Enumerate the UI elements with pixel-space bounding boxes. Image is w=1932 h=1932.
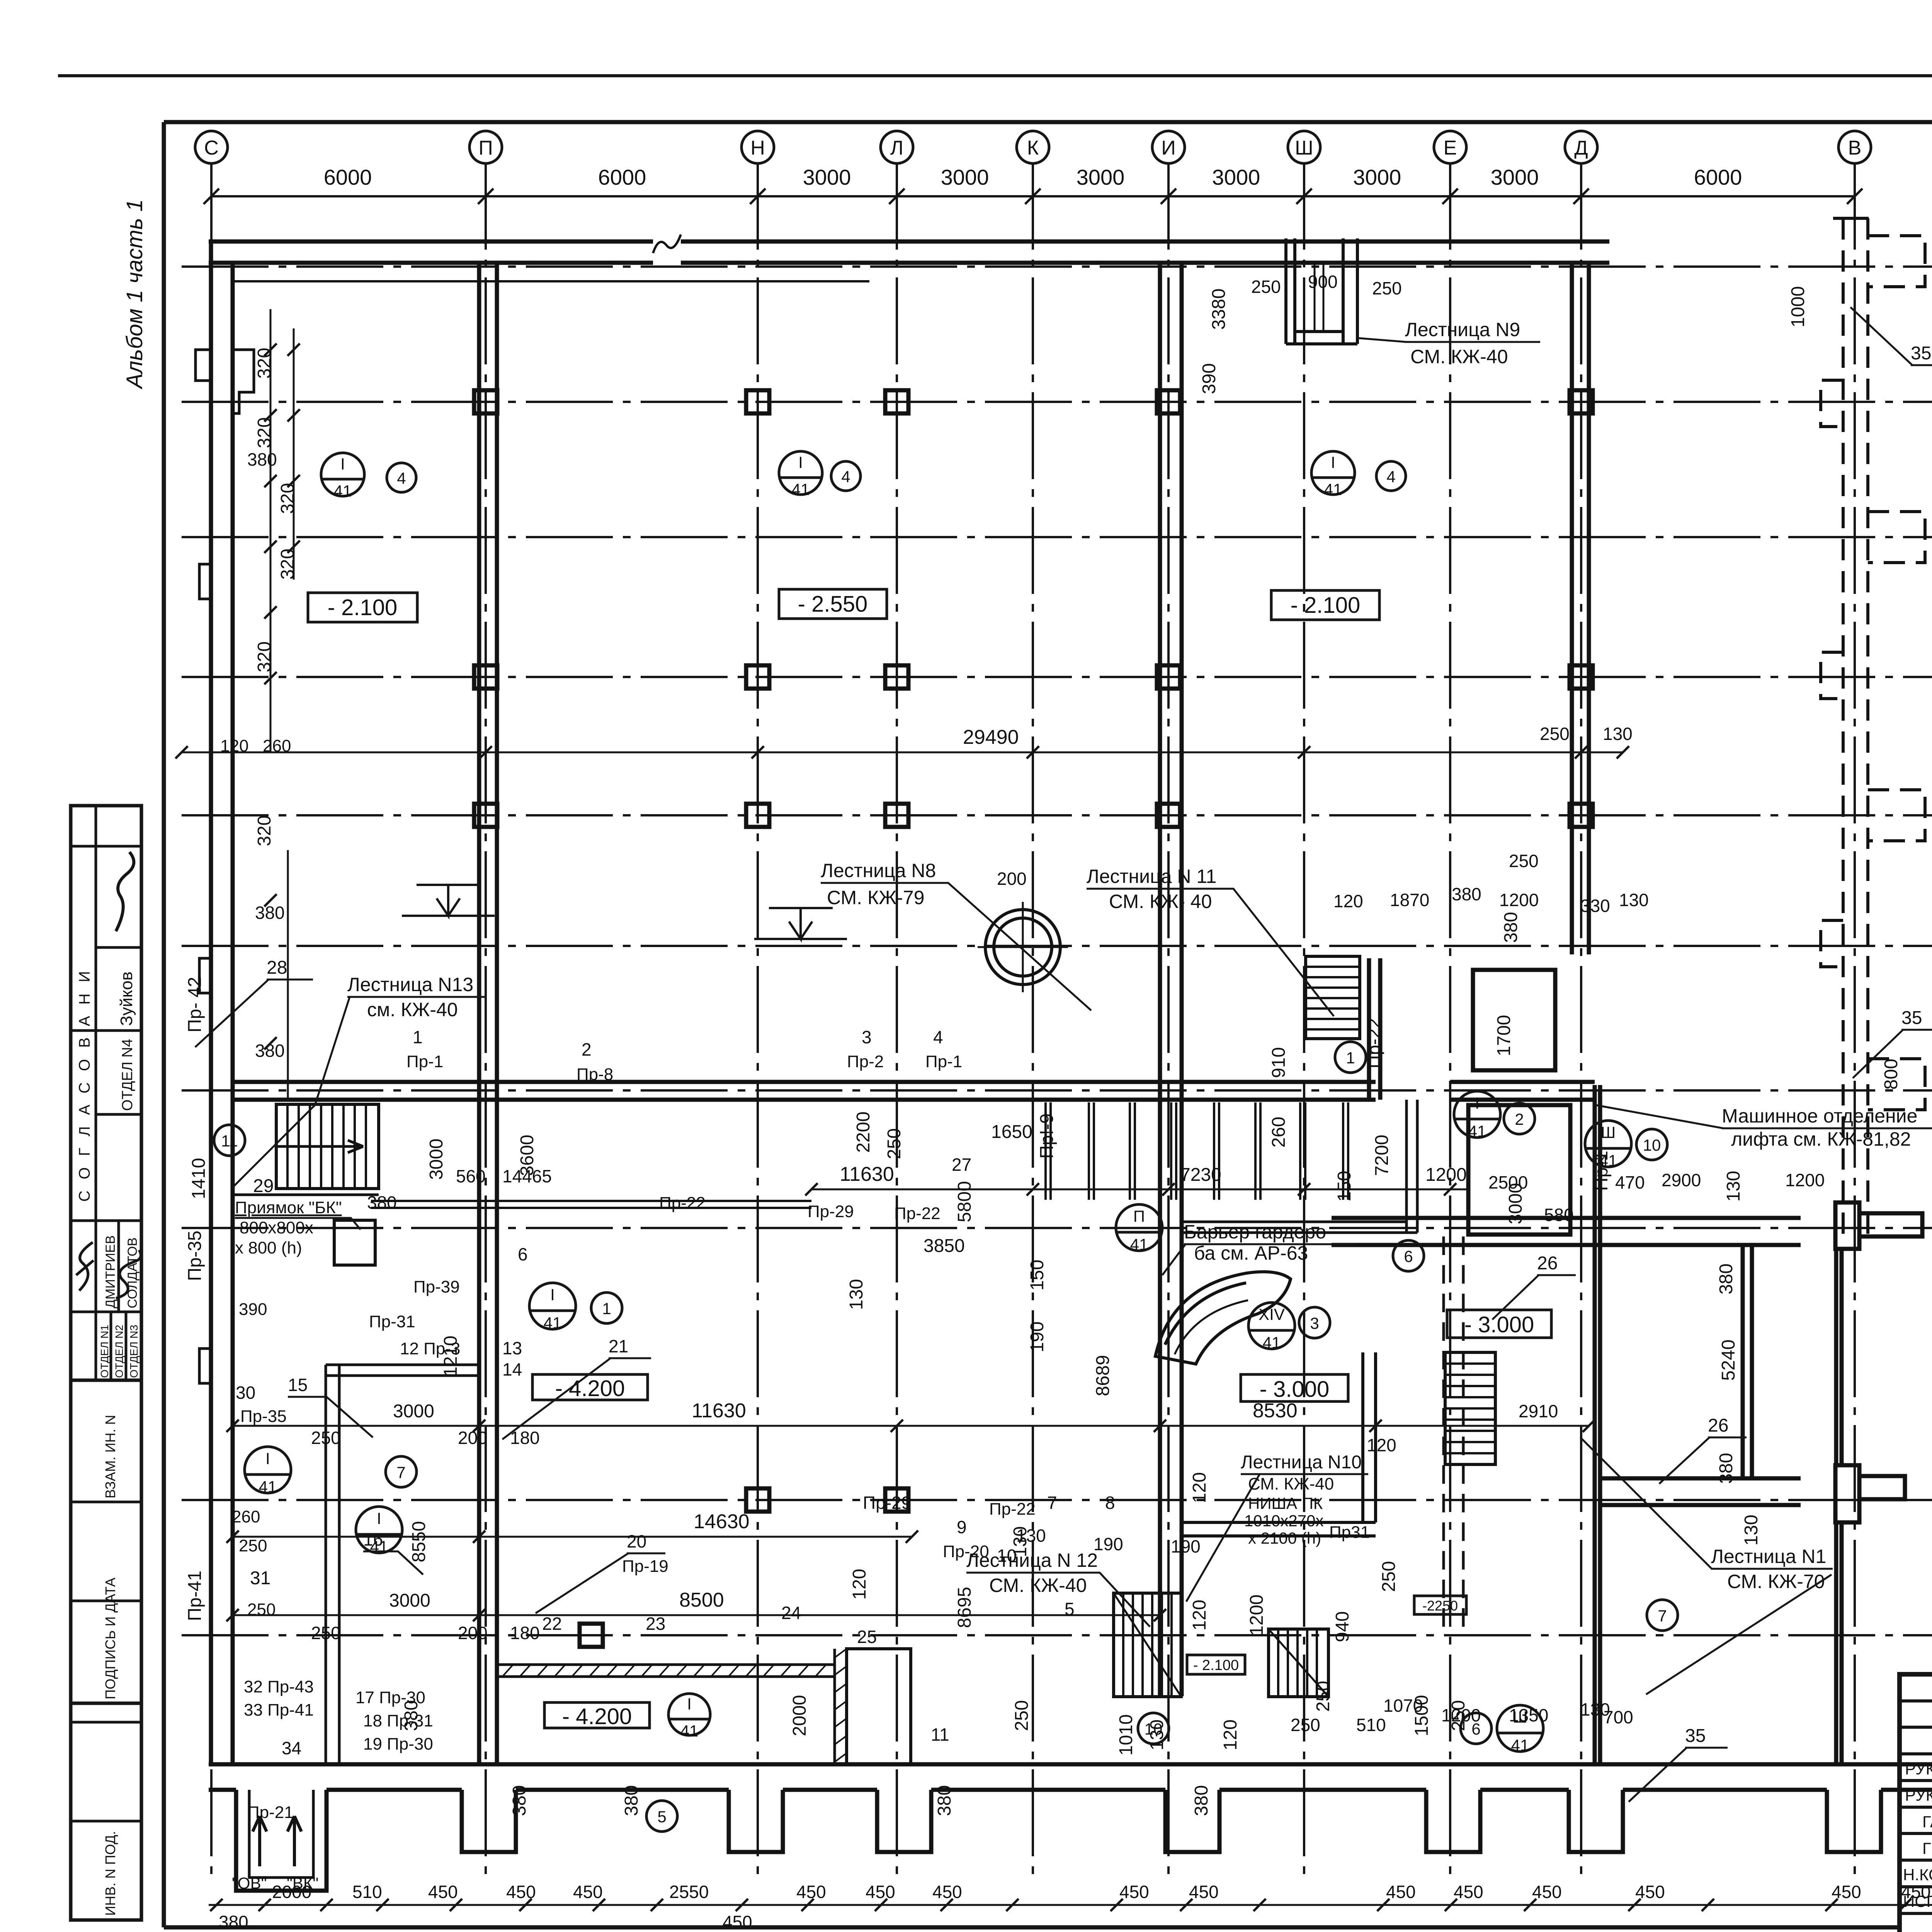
svg-text:ПОДПИСЬ И ДАТА: ПОДПИСЬ И ДАТА bbox=[102, 1578, 118, 1699]
svg-text:- 2.100: - 2.100 bbox=[328, 595, 398, 620]
wall below pier 5 to south wall bbox=[1834, 1522, 1838, 1764]
svg-text:Ш: Ш bbox=[1295, 137, 1313, 159]
svg-text:1000: 1000 bbox=[1788, 286, 1808, 328]
svg-text:3000: 3000 bbox=[1491, 165, 1539, 189]
svg-text:29: 29 bbox=[253, 1176, 274, 1196]
svg-text:450: 450 bbox=[866, 1882, 895, 1902]
svg-text:250: 250 bbox=[1372, 278, 1402, 298]
svg-text:800: 800 bbox=[1881, 1059, 1901, 1090]
svg-text:Лестница N13: Лестница N13 bbox=[347, 974, 473, 995]
svg-text:5: 5 bbox=[657, 1808, 666, 1826]
chamber right wall bbox=[1834, 1248, 1838, 1465]
axis 14 bbox=[182, 265, 1932, 268]
air duct hatched wall horizontal bbox=[497, 1649, 911, 1764]
center room upper partitions near axis 8 south bbox=[1182, 1100, 1417, 1233]
svg-text:Н: Н bbox=[750, 137, 765, 159]
svg-text:ОТДЕЛ N4: ОТДЕЛ N4 bbox=[119, 1039, 136, 1111]
stair 13 bbox=[276, 1104, 379, 1189]
svg-text:3000: 3000 bbox=[1353, 165, 1401, 189]
svg-text:Лестница N8: Лестница N8 bbox=[821, 860, 936, 881]
svg-text:1010х270х: 1010х270х bbox=[1244, 1512, 1324, 1530]
south-west service niche OV VK bbox=[236, 1790, 327, 1891]
svg-text:130: 130 bbox=[846, 1279, 867, 1310]
svg-text:Пр-35: Пр-35 bbox=[240, 1407, 287, 1426]
pier at V x 5 bbox=[1835, 1465, 1859, 1522]
svg-text:6000: 6000 bbox=[598, 165, 646, 189]
svg-text:3000: 3000 bbox=[389, 1590, 430, 1611]
svg-text:- 3.000: - 3.000 bbox=[1260, 1377, 1330, 1402]
svg-text:250: 250 bbox=[1448, 1700, 1469, 1731]
svg-text:330: 330 bbox=[1580, 896, 1610, 916]
svg-text:390: 390 bbox=[239, 1300, 267, 1319]
svg-text:23: 23 bbox=[646, 1614, 665, 1634]
axis I bbox=[1167, 163, 1170, 1882]
svg-text:41: 41 bbox=[1468, 1122, 1486, 1140]
svg-text:ВЗАМ. ИН. N: ВЗАМ. ИН. N bbox=[102, 1415, 118, 1498]
dim line 11630/8530 bbox=[233, 1425, 1589, 1427]
svg-text:Пр-22: Пр-22 bbox=[989, 1500, 1036, 1519]
svg-text:1200: 1200 bbox=[1785, 1170, 1825, 1190]
svg-text:8500: 8500 bbox=[679, 1589, 724, 1611]
svg-text:190: 190 bbox=[1027, 1321, 1048, 1352]
vertical axis lines bbox=[211, 163, 1855, 1882]
svg-text:250: 250 bbox=[247, 1600, 276, 1619]
svg-text:450: 450 bbox=[1832, 1882, 1861, 1902]
east channel wall top cap bbox=[1833, 217, 1869, 220]
svg-text:450: 450 bbox=[1119, 1882, 1149, 1902]
svg-text:1410: 1410 bbox=[189, 1158, 209, 1199]
svg-text:380: 380 bbox=[1452, 884, 1481, 904]
svg-text:320: 320 bbox=[254, 815, 275, 846]
svg-text:Пр31: Пр31 bbox=[1329, 1523, 1370, 1542]
svg-text:22: 22 bbox=[542, 1614, 562, 1634]
svg-text:Лестница N9: Лестница N9 bbox=[1405, 319, 1520, 340]
svg-text:320: 320 bbox=[277, 483, 298, 514]
svg-text:27: 27 bbox=[952, 1155, 971, 1175]
svg-text:560: 560 bbox=[456, 1166, 486, 1186]
svg-text:10: 10 bbox=[1643, 1136, 1661, 1154]
west wall notches bbox=[196, 350, 211, 381]
svg-text:П: П bbox=[478, 137, 493, 159]
axis V bbox=[1854, 163, 1856, 1882]
svg-text:250: 250 bbox=[884, 1128, 905, 1159]
svg-text:х 2100 (h): х 2100 (h) bbox=[1248, 1529, 1321, 1547]
svg-text:380: 380 bbox=[1501, 912, 1521, 943]
svg-text:Пр-8: Пр-8 bbox=[577, 1065, 613, 1084]
east rooms block lower right bbox=[1332, 1085, 1922, 1764]
svg-text:250: 250 bbox=[1379, 1561, 1399, 1592]
sump pit square bbox=[334, 1220, 375, 1265]
svg-text:7: 7 bbox=[1047, 1493, 1057, 1513]
svg-text:380: 380 bbox=[1716, 1453, 1736, 1484]
svg-text:1650: 1650 bbox=[991, 1122, 1032, 1142]
svg-text:41: 41 bbox=[1130, 1235, 1148, 1253]
symbol I/41 circles with room numbers bbox=[214, 451, 1678, 1832]
svg-text:Пр-1: Пр-1 bbox=[1591, 1151, 1612, 1191]
svg-text:35: 35 bbox=[1685, 1726, 1706, 1746]
svg-text:"ВК": "ВК" bbox=[287, 1874, 318, 1892]
svg-text:ОТДЕЛ N2: ОТДЕЛ N2 bbox=[113, 1325, 125, 1378]
svg-text:Ш: Ш bbox=[1601, 1123, 1616, 1141]
axis 8 interior wall bbox=[233, 1080, 1376, 1084]
svg-text:1500: 1500 bbox=[1412, 1695, 1432, 1736]
stair near E bbox=[1445, 1352, 1495, 1464]
svg-text:320: 320 bbox=[277, 549, 298, 580]
top dimension labels bbox=[324, 165, 1742, 189]
svg-text:I: I bbox=[550, 1286, 555, 1304]
chamber divider wall bbox=[1741, 1245, 1745, 1478]
svg-text:С О Г Л А С О В А Н И: С О Г Л А С О В А Н И bbox=[76, 968, 93, 1202]
svg-text:380: 380 bbox=[401, 1700, 422, 1731]
svg-text:450: 450 bbox=[1454, 1882, 1483, 1902]
axis 10 bbox=[182, 814, 1932, 816]
svg-text:4: 4 bbox=[397, 469, 406, 487]
svg-text:Пр-22: Пр-22 bbox=[1364, 1018, 1384, 1069]
svg-text:2000: 2000 bbox=[789, 1695, 810, 1736]
svg-text:2910: 2910 bbox=[1519, 1401, 1558, 1421]
svg-text:1200: 1200 bbox=[1247, 1595, 1267, 1636]
svg-text:33 Пр-41: 33 Пр-41 bbox=[244, 1701, 314, 1719]
svg-text:3: 3 bbox=[1310, 1314, 1319, 1332]
svg-text:41: 41 bbox=[334, 482, 352, 500]
svg-text:С: С bbox=[204, 137, 219, 159]
svg-text:5240: 5240 bbox=[1718, 1340, 1739, 1381]
svg-text:-2250: -2250 bbox=[1422, 1598, 1458, 1614]
axis 5 bbox=[182, 1499, 1932, 1501]
wall by stair 11 bbox=[1367, 958, 1371, 1100]
svg-text:Пр-1: Пр-1 bbox=[406, 1052, 443, 1071]
svg-text:11630: 11630 bbox=[692, 1400, 746, 1422]
svg-text:7: 7 bbox=[1658, 1607, 1667, 1625]
axis 12 bbox=[182, 536, 1932, 538]
svg-text:14: 14 bbox=[502, 1359, 522, 1379]
axis 9 bbox=[182, 945, 1932, 947]
svg-text:130: 130 bbox=[1580, 1699, 1610, 1719]
svg-text:5: 5 bbox=[1065, 1599, 1075, 1619]
svg-text:380: 380 bbox=[255, 903, 285, 923]
svg-text:380: 380 bbox=[509, 1785, 530, 1816]
left inner vertical dim chain bbox=[270, 309, 272, 752]
svg-text:260: 260 bbox=[1269, 1117, 1289, 1148]
svg-text:СМ. КЖ- 40: СМ. КЖ- 40 bbox=[1109, 891, 1212, 912]
svg-text:3000: 3000 bbox=[1505, 1183, 1526, 1225]
svg-text:СМ. КЖ-79: СМ. КЖ-79 bbox=[827, 887, 925, 908]
svg-text:120: 120 bbox=[1189, 1600, 1210, 1631]
axis D interior wall upper bbox=[1570, 263, 1574, 954]
svg-text:ОТДЕЛ N3: ОТДЕЛ N3 bbox=[128, 1325, 140, 1378]
svg-text:4: 4 bbox=[1386, 468, 1395, 486]
stair 11 bbox=[1306, 956, 1360, 1039]
svg-text:- 4.200: - 4.200 bbox=[562, 1704, 632, 1729]
svg-text:29490: 29490 bbox=[963, 726, 1019, 748]
svg-text:ДМИТРИЕВ: ДМИТРИЕВ bbox=[103, 1235, 118, 1308]
top dimension line bbox=[211, 195, 1855, 197]
stair 10 bbox=[1269, 1629, 1328, 1697]
svg-text:450: 450 bbox=[932, 1882, 962, 1902]
svg-text:I: I bbox=[1331, 453, 1335, 471]
svg-text:Машинное отделение: Машинное отделение bbox=[1722, 1105, 1917, 1127]
svg-text:Пр-39: Пр-39 bbox=[413, 1277, 460, 1296]
lift machine room walls bbox=[1468, 970, 1570, 1235]
svg-text:41: 41 bbox=[680, 1722, 699, 1740]
svg-text:250: 250 bbox=[1251, 277, 1281, 297]
svg-text:120: 120 bbox=[1367, 1435, 1396, 1455]
svg-text:150: 150 bbox=[1027, 1260, 1048, 1291]
svg-text:130: 130 bbox=[1147, 1719, 1167, 1750]
svg-text:200: 200 bbox=[997, 869, 1027, 889]
svg-text:250: 250 bbox=[1012, 1700, 1032, 1731]
svg-text:1200: 1200 bbox=[1425, 1165, 1467, 1185]
svg-text:380: 380 bbox=[1191, 1785, 1212, 1816]
svg-text:Приямок "БК": Приямок "БК" bbox=[235, 1198, 342, 1217]
stair 9 pit at top bbox=[1286, 238, 1357, 344]
axis N bbox=[757, 163, 759, 1882]
svg-text:- 3.000: - 3.000 bbox=[1464, 1312, 1534, 1337]
bottom dim chain bbox=[209, 1904, 1932, 1906]
left wall dim chain ticks bbox=[264, 344, 300, 1049]
svg-text:120: 120 bbox=[849, 1569, 870, 1600]
interior partition room 7 bbox=[326, 1365, 479, 1764]
svg-text:8: 8 bbox=[1105, 1493, 1115, 1513]
svg-text:3850: 3850 bbox=[923, 1236, 965, 1256]
svg-text:24: 24 bbox=[781, 1603, 801, 1623]
axis I interior wall bbox=[1158, 263, 1162, 1696]
svg-text:1010: 1010 bbox=[1116, 1714, 1136, 1756]
svg-text:1: 1 bbox=[413, 1027, 423, 1047]
chamber left wall bbox=[1593, 1085, 1597, 1764]
svg-text:910: 910 bbox=[1269, 1047, 1289, 1078]
svg-text:450: 450 bbox=[796, 1882, 826, 1902]
svg-text:7230: 7230 bbox=[1180, 1165, 1221, 1185]
svg-text:1: 1 bbox=[602, 1299, 611, 1318]
svg-text:Пр-22: Пр-22 bbox=[894, 1204, 940, 1223]
axis P interior wall bbox=[477, 263, 481, 1764]
partition south of axis 8 bbox=[371, 1201, 811, 1208]
svg-text:18 Пр-31: 18 Пр-31 bbox=[363, 1711, 433, 1730]
svg-text:130: 130 bbox=[1619, 890, 1649, 910]
axis 4 bbox=[182, 1634, 1932, 1636]
svg-text:41: 41 bbox=[1263, 1333, 1281, 1352]
svg-text:Пр-21: Пр-21 bbox=[247, 1803, 294, 1822]
svg-text:лифта см. КЖ-81,82: лифта см. КЖ-81,82 bbox=[1731, 1128, 1911, 1150]
level marks with arrows bbox=[402, 97, 1932, 939]
svg-text:380: 380 bbox=[367, 1192, 397, 1213]
svg-text:Пр-41: Пр-41 bbox=[185, 1571, 205, 1621]
svg-text:Пр-35: Пр-35 bbox=[185, 1231, 205, 1281]
corridor dashed wall at E bbox=[1444, 1236, 1463, 1634]
svg-text:190: 190 bbox=[1171, 1536, 1201, 1556]
svg-text:Л: Л bbox=[890, 137, 903, 159]
stair 12 bbox=[1114, 1593, 1181, 1697]
sheet top border line bbox=[58, 74, 1932, 77]
axis C bbox=[210, 163, 213, 1882]
axis K bbox=[1032, 163, 1034, 1882]
svg-text:800х800х: 800х800х bbox=[240, 1218, 313, 1237]
axis D bbox=[1580, 163, 1582, 1882]
svg-text:ОТДЕЛ N1: ОТДЕЛ N1 bbox=[99, 1325, 111, 1378]
svg-text:260: 260 bbox=[263, 736, 291, 755]
svg-text:380: 380 bbox=[621, 1785, 642, 1816]
svg-text:19 Пр-30: 19 Пр-30 bbox=[363, 1735, 433, 1753]
svg-text:- 2.100: - 2.100 bbox=[1193, 1657, 1239, 1673]
svg-text:450: 450 bbox=[1189, 1882, 1219, 1902]
svg-text:3000: 3000 bbox=[941, 165, 989, 189]
letter circles row bbox=[195, 131, 1871, 163]
svg-text:13: 13 bbox=[502, 1338, 522, 1358]
svg-text:450: 450 bbox=[1386, 1882, 1416, 1902]
svg-text:5800: 5800 bbox=[954, 1181, 975, 1223]
wall break squiggle bbox=[653, 235, 681, 253]
svg-text:Пр- 42: Пр- 42 bbox=[185, 977, 205, 1032]
svg-text:150: 150 bbox=[1334, 1171, 1355, 1202]
left margin stamp column bbox=[71, 806, 141, 1920]
svg-text:Пр-1: Пр-1 bbox=[925, 1052, 962, 1071]
svg-text:11: 11 bbox=[221, 1132, 238, 1150]
leader lines for position numbers bbox=[195, 307, 1932, 1802]
svg-text:3000: 3000 bbox=[803, 165, 851, 189]
svg-text:см. КЖ-40: см. КЖ-40 bbox=[367, 999, 458, 1020]
west outer wall bbox=[209, 241, 213, 1764]
svg-text:450: 450 bbox=[723, 1912, 752, 1932]
svg-text:ГИП: ГИП bbox=[1922, 1839, 1932, 1857]
svg-text:Барьер гардеро-: Барьер гардеро- bbox=[1184, 1221, 1333, 1243]
svg-text:6000: 6000 bbox=[324, 165, 372, 189]
svg-text:3600: 3600 bbox=[517, 1135, 537, 1176]
svg-text:380: 380 bbox=[219, 1912, 248, 1932]
svg-text:Зуйков: Зуйков bbox=[117, 971, 136, 1026]
svg-text:1700: 1700 bbox=[1494, 1015, 1514, 1056]
svg-text:И: И bbox=[1161, 137, 1175, 159]
svg-text:20: 20 bbox=[627, 1531, 646, 1551]
svg-text:8689: 8689 bbox=[1093, 1355, 1113, 1396]
svg-text:35: 35 bbox=[1901, 1008, 1922, 1028]
axis 8 bbox=[182, 1089, 1932, 1092]
svg-text:Н.КОНТР.: Н.КОНТР. bbox=[1903, 1866, 1932, 1884]
svg-text:380: 380 bbox=[247, 449, 277, 469]
svg-text:7200: 7200 bbox=[1372, 1135, 1392, 1176]
svg-text:900: 900 bbox=[1308, 272, 1338, 292]
grid letters bbox=[204, 137, 1861, 159]
svg-text:Д: Д bbox=[1574, 137, 1588, 159]
svg-text:Пр-29: Пр-29 bbox=[863, 1493, 911, 1513]
svg-text:450: 450 bbox=[1532, 1882, 1562, 1902]
svg-text:3000: 3000 bbox=[426, 1139, 447, 1180]
north outer wall band bbox=[209, 240, 653, 244]
svg-text:9: 9 bbox=[957, 1517, 967, 1537]
svg-text:Пр-20: Пр-20 bbox=[943, 1542, 989, 1561]
svg-text:14630: 14630 bbox=[694, 1510, 750, 1533]
svg-text:3000: 3000 bbox=[1077, 165, 1125, 189]
svg-text:320: 320 bbox=[254, 348, 275, 379]
svg-text:К: К bbox=[1027, 137, 1039, 159]
svg-text:34: 34 bbox=[282, 1738, 301, 1758]
svg-text:390: 390 bbox=[1199, 363, 1219, 394]
svg-text:120: 120 bbox=[1189, 1472, 1210, 1503]
dim line 29490 bbox=[182, 752, 1623, 753]
svg-text:25: 25 bbox=[857, 1627, 877, 1647]
svg-text:1870: 1870 bbox=[1390, 890, 1429, 910]
niche arrows bbox=[253, 1816, 301, 1866]
svg-text:РУК. КБ1: РУК. КБ1 bbox=[1905, 1786, 1932, 1804]
svg-text:130: 130 bbox=[1603, 724, 1633, 744]
svg-text:260: 260 bbox=[232, 1507, 260, 1526]
svg-text:3: 3 bbox=[862, 1027, 872, 1047]
svg-text:х 800 (h): х 800 (h) bbox=[235, 1238, 302, 1257]
svg-text:510: 510 bbox=[352, 1882, 382, 1902]
svg-text:I: I bbox=[340, 455, 345, 473]
svg-text:16: 16 bbox=[363, 1529, 383, 1549]
svg-text:41: 41 bbox=[544, 1314, 562, 1332]
axis 13 bbox=[182, 401, 1932, 403]
svg-text:I: I bbox=[798, 453, 803, 471]
svg-text:3380: 3380 bbox=[1209, 289, 1229, 330]
svg-text:120: 120 bbox=[220, 736, 248, 755]
svg-text:250: 250 bbox=[1313, 1681, 1333, 1712]
svg-text:- 2.550: - 2.550 bbox=[798, 592, 868, 617]
svg-text:320: 320 bbox=[254, 417, 275, 448]
svg-text:- 2.100: - 2.100 bbox=[1291, 593, 1361, 618]
svg-text:НИША ПК: НИША ПК bbox=[1248, 1494, 1323, 1512]
stair13 lower partition bbox=[233, 1194, 379, 1196]
svg-text:7: 7 bbox=[396, 1463, 405, 1481]
dimension tick marks bbox=[175, 746, 1932, 1911]
svg-text:I: I bbox=[377, 1509, 381, 1527]
svg-text:8695: 8695 bbox=[954, 1587, 975, 1628]
svg-text:8530: 8530 bbox=[1253, 1400, 1298, 1422]
svg-text:26: 26 bbox=[1537, 1253, 1558, 1274]
svg-text:41: 41 bbox=[792, 480, 810, 498]
svg-text:41: 41 bbox=[1324, 480, 1342, 498]
svg-text:2: 2 bbox=[1515, 1110, 1524, 1128]
svg-text:Пр-2: Пр-2 bbox=[847, 1052, 884, 1071]
south outer wall bbox=[209, 1762, 1932, 1767]
svg-text:2200: 2200 bbox=[853, 1112, 874, 1153]
svg-text:I: I bbox=[265, 1449, 270, 1468]
svg-text:"ОВ": "ОВ" bbox=[232, 1874, 267, 1892]
signature squiggles bbox=[116, 852, 134, 931]
svg-text:250: 250 bbox=[1291, 1715, 1320, 1735]
svg-text:4: 4 bbox=[933, 1027, 943, 1047]
svg-text:450: 450 bbox=[573, 1882, 603, 1902]
svg-text:СОЛДАТОВ: СОЛДАТОВ bbox=[125, 1237, 140, 1308]
svg-text:Лестница N1: Лестница N1 bbox=[1711, 1546, 1826, 1567]
svg-text:6: 6 bbox=[518, 1244, 528, 1264]
svg-text:470: 470 bbox=[1615, 1172, 1645, 1192]
svg-text:450: 450 bbox=[428, 1882, 458, 1902]
svg-text:940: 940 bbox=[1332, 1611, 1353, 1642]
svg-text:11630: 11630 bbox=[840, 1163, 894, 1185]
svg-text:2: 2 bbox=[582, 1039, 592, 1060]
svg-text:250: 250 bbox=[239, 1536, 267, 1555]
svg-text:Пр-29: Пр-29 bbox=[808, 1202, 854, 1221]
axis E bbox=[1449, 163, 1451, 1882]
svg-text:I: I bbox=[687, 1695, 692, 1713]
svg-text:6: 6 bbox=[1404, 1247, 1413, 1265]
leader lines for stair labels bbox=[232, 338, 1932, 1694]
svg-text:ба см. АР-63: ба см. АР-63 bbox=[1194, 1242, 1308, 1264]
axis 11 bbox=[182, 676, 1932, 678]
dim line 11630/7230 bbox=[811, 1189, 1468, 1190]
svg-text:11: 11 bbox=[931, 1725, 949, 1745]
svg-text:РУК.АБ1: РУК.АБ1 bbox=[1905, 1760, 1932, 1778]
svg-text:Лестница N10: Лестница N10 bbox=[1241, 1452, 1362, 1473]
svg-text:Альбом 1 часть 1: Альбом 1 часть 1 bbox=[122, 199, 147, 390]
svg-text:2550: 2550 bbox=[669, 1882, 709, 1902]
svg-text:30: 30 bbox=[236, 1383, 255, 1403]
svg-text:41: 41 bbox=[1511, 1736, 1529, 1754]
cloakroom fence posts bbox=[1046, 1102, 1348, 1200]
svg-text:П: П bbox=[1133, 1207, 1145, 1225]
